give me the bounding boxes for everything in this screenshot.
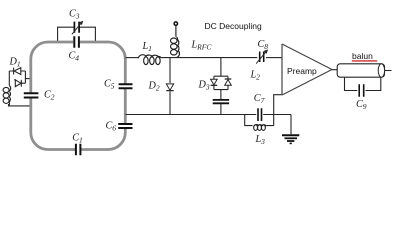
svg-text:balun: balun: [352, 51, 373, 61]
svg-text:Preamp: Preamp: [287, 66, 317, 76]
svg-text:DC Decoupling: DC Decoupling: [205, 21, 262, 31]
